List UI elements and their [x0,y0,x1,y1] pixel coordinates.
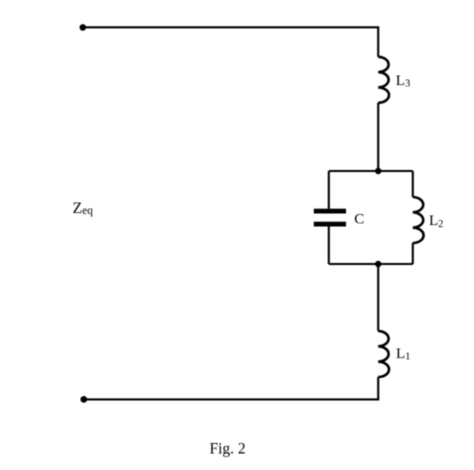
inductor L2 [413,197,424,243]
svg-text:Zeq: Zeq [73,200,94,217]
wire right branch lower [412,243,414,264]
svg-text:C: C [354,212,364,228]
wire top horizontal and down to L3 [83,27,378,57]
wire L1 to bottom left [84,377,378,399]
svg-text:L1: L1 [396,346,410,362]
node top junction [375,168,381,174]
wire left branch lower [328,227,330,265]
wire box top [329,170,413,172]
inductor L3 [378,57,389,103]
node bottom junction [375,261,381,267]
svg-text:Fig. 2: Fig. 2 [210,440,246,457]
terminal dot bottom-left [80,396,87,403]
capacitor C [314,209,346,227]
wire left branch upper [328,171,330,209]
inductor L1 [378,331,389,377]
svg-text:L2: L2 [429,213,443,230]
svg-text:L3: L3 [396,73,410,90]
wire box bottom [329,263,413,265]
wire L3 to top junction [377,103,379,171]
wire right branch upper [412,171,414,197]
terminal dot top-left [80,24,87,31]
wire junction to L1 [377,264,379,331]
